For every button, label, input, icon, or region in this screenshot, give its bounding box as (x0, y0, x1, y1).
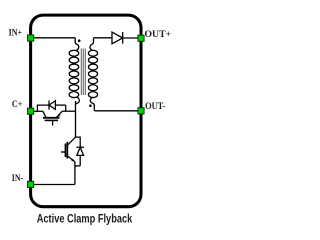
wire clamp diode branch (37, 105, 49, 111)
wire primary bottom hook (75, 97, 79, 105)
block outline U1 Active Clamp Flyback (31, 15, 141, 207)
svg-text:IN-: IN- (12, 173, 23, 183)
wire clamp output to primary node (62, 110, 75, 112)
wire primary bottom vertical (75, 101, 77, 137)
svg-text:OUT+: OUT+ (145, 29, 172, 39)
transformer T1 secondary winding (88, 50, 97, 97)
svg-text:IN+: IN+ (9, 28, 22, 38)
svg-text:OUT-: OUT- (145, 101, 165, 111)
wire collector jog to freewheel diode (76, 137, 81, 147)
svg-text:Active Clamp Flyback: Active Clamp Flyback (37, 212, 133, 226)
transistor Q2 main switch (IGBT) (61, 137, 76, 162)
wire diode bottom connector (75, 165, 80, 167)
wire secondary top rail (94, 37, 113, 39)
wire secondary top hook (90, 38, 94, 51)
wire IN+ rail (31, 37, 76, 39)
wire IN- rail (31, 184, 75, 186)
wire emitter vertical (74, 162, 76, 185)
pin OUT+ (138, 35, 144, 41)
node dot primary polarity (78, 39, 81, 42)
wire C+ rail (31, 110, 43, 112)
diode D3 clamp (points left) (49, 101, 66, 112)
node dot secondary polarity (89, 104, 92, 107)
wire secondary bottom hook (90, 97, 94, 111)
transistor Q1 clamp switch (rotated IGBT) (43, 111, 62, 125)
wire OUT- rail (95, 110, 139, 112)
pin IN- (28, 181, 34, 187)
pin C+ (28, 108, 34, 114)
diode D4 freewheel (points up) (76, 147, 84, 166)
diode D1 output rectifier (112, 32, 139, 44)
transformer T1 core (81, 49, 85, 96)
transformer T1 primary winding (69, 50, 79, 97)
wire primary top hook (75, 38, 79, 51)
pin IN+ (28, 35, 34, 41)
pin OUT- (138, 108, 144, 114)
svg-text:C+: C+ (12, 99, 22, 109)
